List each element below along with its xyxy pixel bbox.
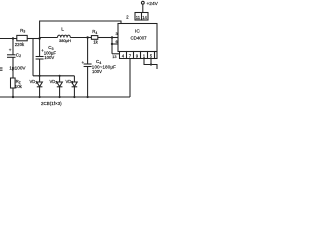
svg-text:VD1: VD1	[30, 79, 38, 85]
svg-text:220k: 220k	[15, 42, 25, 47]
resistor R4	[91, 36, 97, 40]
svg-text:CD4007: CD4007	[131, 35, 148, 40]
wire node A up and across to IC pin 2	[40, 21, 121, 39]
svg-text:380μH: 380μH	[59, 38, 71, 43]
pin box 11	[135, 13, 142, 21]
svg-text:5: 5	[150, 54, 153, 59]
wire pin13 stub	[112, 53, 120, 55]
wire left rail upper	[12, 39, 14, 55]
pin boxes bottom row	[120, 52, 127, 59]
wire left rail lower	[12, 88, 14, 97]
svg-text:R4: R4	[92, 29, 97, 35]
svg-text:VD2: VD2	[50, 79, 58, 85]
svg-text:L: L	[61, 26, 64, 32]
svg-text:3: 3	[116, 32, 118, 36]
wire R4 to bus	[98, 37, 112, 39]
wire branch from R3 lead down	[32, 39, 34, 76]
resistor R3	[17, 35, 27, 40]
node input-top junction	[12, 37, 14, 39]
wire pin6 stub	[112, 43, 118, 45]
diode VD2	[59, 76, 61, 82]
svg-text:C2: C2	[16, 52, 21, 58]
svg-text:11: 11	[136, 15, 141, 20]
capacitor C2	[7, 54, 16, 56]
wire input top-left	[0, 38, 17, 40]
svg-text:14: 14	[142, 15, 147, 20]
svg-text:2CB(1f×3): 2CB(1f×3)	[41, 101, 62, 106]
svg-text:IC: IC	[135, 29, 140, 35]
wire output pins join	[144, 59, 157, 70]
svg-text:9: 9	[136, 54, 139, 59]
svg-text:7: 7	[129, 54, 132, 59]
capacitor C4	[87, 38, 89, 65]
node rail junctions	[39, 96, 41, 98]
resistor R2	[11, 78, 16, 88]
svg-text:+: +	[9, 48, 12, 53]
wire pin3 stub	[112, 37, 118, 39]
inductor L	[40, 35, 88, 37]
node A junction	[38, 37, 40, 39]
node bottom-left junction	[12, 96, 14, 98]
wire diode top rail	[33, 75, 74, 77]
svg-text:6: 6	[116, 40, 118, 44]
svg-text:10k: 10k	[15, 84, 23, 89]
battery terminal marks left edge	[0, 67, 3, 69]
svg-text:1k: 1k	[93, 40, 98, 45]
svg-text:2: 2	[126, 15, 129, 20]
svg-text:4: 4	[122, 54, 125, 59]
node B junction (C4 tap)	[86, 36, 88, 38]
node bus-mid junction	[111, 43, 113, 45]
svg-text:13: 13	[112, 55, 116, 59]
op IC U1 box	[118, 24, 157, 52]
node supply terminal	[141, 1, 144, 4]
svg-text:+24V: +24V	[147, 1, 159, 7]
svg-text:1μ100V: 1μ100V	[9, 65, 26, 70]
svg-text:+: +	[82, 60, 85, 65]
wire supply terminal	[142, 4, 144, 13]
svg-text:R3: R3	[20, 28, 25, 34]
wire to R4	[88, 37, 92, 39]
wire pin7 to ground rail	[129, 59, 131, 98]
diode VD1	[39, 76, 41, 82]
wire left rail mid	[12, 57, 14, 78]
pin box 14	[142, 13, 149, 21]
capacitor C3	[39, 39, 41, 57]
svg-text:1: 1	[143, 54, 146, 59]
wire bottom rail	[0, 96, 130, 98]
svg-text:VD3: VD3	[66, 79, 74, 85]
svg-text:100V: 100V	[44, 55, 54, 60]
wire bus vertical	[111, 38, 113, 54]
diode VD3	[73, 76, 75, 82]
wire R3 to node A	[27, 38, 39, 40]
svg-text:100V: 100V	[92, 69, 102, 74]
node bus-top junction	[111, 36, 113, 38]
